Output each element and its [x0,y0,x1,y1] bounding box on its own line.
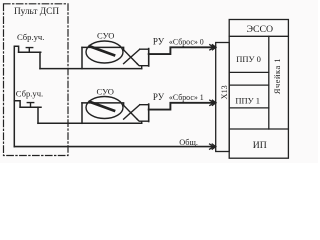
divider cell column [268,36,270,129]
svg-text:РУ: РУ [153,92,165,102]
crossover row1 junction bar [148,49,150,66]
wire row2 riser [81,103,83,123]
key switch СУО row2 ellipse [86,97,123,119]
button SB2 contact bar [20,106,41,108]
svg-text:Сбр.уч.: Сбр.уч. [17,32,44,42]
wire SB1 output drop [39,52,41,68]
wire row1 drop to lower wire [141,66,143,69]
svg-text:СУО: СУО [97,31,114,41]
divider under ППУ 0 [229,71,269,73]
key switch СУО row1 blade [90,46,114,55]
key switch СУО row1 ellipse [86,41,123,63]
crossover row1 right arms [137,49,149,65]
svg-text:«Сброс» 0: «Сброс» 0 [169,37,204,46]
svg-text:Х13: Х13 [220,85,229,99]
svg-text:Пульт ДСП: Пульт ДСП [14,7,59,17]
contact РУ row1 (stepped wire to connector) [149,47,216,54]
svg-text:СУО: СУО [97,86,114,96]
unit ЭССО outer box [229,20,288,159]
button SB2 left hook [14,101,20,107]
svg-text:Общ.: Общ. [179,138,198,147]
crossover row2 right arms [137,105,149,122]
svg-text:Ячейка 1: Ячейка 1 [273,58,282,94]
wire common bus [14,146,215,148]
crossover row2 [124,105,140,120]
button SB1 left terminal and vertical wire [14,46,18,146]
arrows row1 into X13 [210,45,216,50]
wire SB2 output drop [37,107,39,123]
wire row1 upper [82,47,124,50]
svg-text:ЭССО: ЭССО [246,24,273,35]
wire row2 drop to lower wire [141,121,143,123]
wire row1 lower [40,68,142,70]
divider top of ППУ 1 [229,84,269,86]
button SB2 plunger [27,103,33,108]
arrows row2 into X13 [210,100,216,105]
svg-text:РУ: РУ [153,36,165,46]
button SB1 plunger [26,48,32,53]
svg-text:Сбр.уч.: Сбр.уч. [16,89,43,99]
divider top of ИП [229,128,288,130]
crossover row1 [124,49,140,64]
button SB1 contact bar [19,51,41,53]
enclosure Пульт ДСП (dash-dot frame) [4,4,69,156]
wire row2 lower [38,122,142,124]
arrows common bus into X13 [210,144,216,149]
svg-text:ИП: ИП [253,140,267,151]
wire row1 riser [81,47,83,68]
svg-text:ППУ 1: ППУ 1 [235,95,260,105]
divider under ППУ 1 [229,107,269,109]
wire row2 upper [82,103,124,106]
svg-text:ППУ 0: ППУ 0 [236,54,261,64]
connector X13 body [216,43,230,152]
crossover row2 junction bar [148,104,150,121]
key switch СУО row2 blade [90,102,114,111]
svg-text:«Сброс» 1: «Сброс» 1 [169,93,204,102]
divider under ЭССО [229,35,288,37]
contact РУ row2 (stepped wire to connector) [149,103,216,110]
